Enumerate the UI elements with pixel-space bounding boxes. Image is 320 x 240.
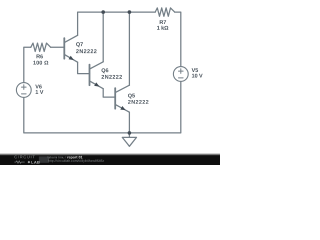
- voltage source V5: [173, 67, 188, 82]
- label Q7 part number: 2N2222: [76, 49, 97, 53]
- wire: Q6 collector up to top rail: [102, 12, 104, 62]
- label V5 value: 10 V: [192, 74, 203, 78]
- footer url: [48, 159, 104, 162]
- footer text: [48, 156, 105, 163]
- label R6: R6: [37, 55, 43, 59]
- label Q6 part number: 2N2222: [102, 75, 123, 79]
- label R7: R7: [160, 20, 166, 24]
- wire: V6 plus terminal up to R6: [24, 47, 31, 82]
- wire: bottom rail to V6 minus terminal: [24, 98, 130, 133]
- node: junction dot Q6 collector on top rail: [101, 10, 105, 14]
- voltage source V6: [16, 83, 31, 98]
- node: junction dot Q5 collector on top rail: [128, 10, 132, 14]
- wire: Q5 collector up to top rail: [128, 12, 130, 85]
- wire: Q7 emitter to Q6 base: [78, 62, 90, 73]
- transistor Q6: [90, 62, 104, 89]
- label V5: V5: [192, 68, 199, 72]
- label Q5 part number: 2N2222: [128, 100, 149, 104]
- label R7 value: 1 kΩ: [157, 26, 168, 30]
- wire: top rail from Q7 collector to R7 left end: [78, 12, 156, 35]
- wire: R6 to Q7 base: [51, 46, 65, 48]
- wire: Q5 emitter down to ground junction: [128, 112, 130, 133]
- label Q5: Q5: [128, 94, 135, 99]
- logo resistor zigzag: [14, 161, 24, 163]
- label V6: V6: [35, 85, 41, 89]
- wire: V5 minus terminal down to bottom rail right corner: [129, 82, 180, 133]
- label V6 value: 1 V: [36, 90, 44, 94]
- label Q6: Q6: [102, 68, 109, 73]
- transistor Q7: [64, 35, 77, 62]
- CircuitLab logo: [14, 156, 49, 164]
- logo wordmark CIRCUIT: [15, 156, 35, 159]
- node: junction dot ground on bottom rail: [128, 131, 132, 135]
- logo wordmark LAB: [32, 161, 40, 164]
- resistor R7: [155, 8, 175, 16]
- resistor R6: [31, 43, 51, 51]
- label Q7: Q7: [76, 42, 83, 47]
- label R6 value: 100 Ω: [33, 61, 48, 65]
- ground: [122, 133, 136, 146]
- wire: R7 to V5 plus terminal: [175, 12, 181, 66]
- wire: Q6 emitter to Q5 base: [103, 89, 115, 97]
- footer author name: [48, 156, 67, 158]
- footer circuit title report 01: [67, 156, 82, 159]
- transistor Q5: [115, 85, 129, 112]
